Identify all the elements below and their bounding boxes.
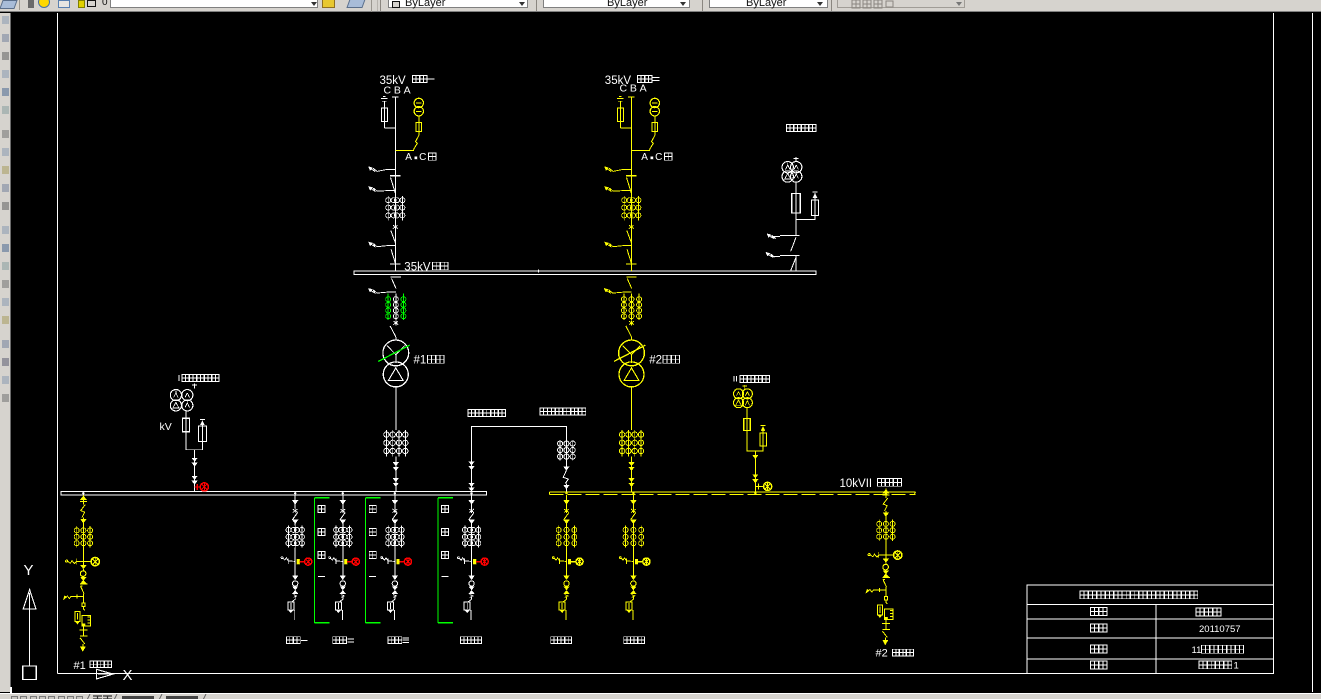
series reactor and capacitor [884, 609, 893, 620]
UCS icon X axis arrowhead [97, 669, 114, 679]
title row name label [1091, 608, 1099, 616]
wire feeder drop at x=342.8 [342, 495, 344, 500]
small marks [632, 595, 636, 596]
svg-text:11: 11 [1192, 645, 1202, 656]
tap range line (transformer 2) [614, 345, 645, 361]
wire drop (section I bus PT) [194, 450, 196, 492]
cabinet vertical label [369, 506, 376, 513]
closed indicator lamp [305, 558, 312, 565]
hourglass contact [631, 587, 636, 590]
disconnector below 35kV bus (transformer 2 string) [626, 276, 636, 278]
flow arrow [564, 520, 570, 524]
bus II connection dots [565, 492, 567, 494]
svg-text:A: A [405, 152, 412, 163]
earthing switch branch [619, 557, 621, 559]
earthing switch branch [329, 557, 331, 559]
feeder tail [393, 610, 395, 620]
current transformers [387, 525, 389, 547]
drawing frame left border [56, 13, 58, 674]
lineweight combo [709, 0, 828, 8]
wire to junction [342, 548, 344, 576]
disconnector blade [469, 513, 474, 520]
charged indicator link [568, 559, 571, 564]
disconnector blade [292, 513, 297, 520]
current transformers [558, 525, 560, 547]
svg-text:20110757: 20110757 [1199, 624, 1241, 635]
closed indicator lamp [83, 561, 90, 563]
closed indicator lamp [481, 558, 488, 565]
flow arrow [469, 500, 475, 504]
drawout breaker [294, 597, 296, 600]
surge arrester F1 (incomer 1 left branch) [381, 98, 388, 100]
wire PT branch jog (incoming line 2) [631, 132, 655, 151]
surge arrester F2 (incomer 2 left branch) [617, 98, 624, 100]
fuse (section I bus PT) [185, 411, 187, 418]
closed grounding indicator (section I) [196, 484, 198, 490]
fuse link circle [293, 581, 298, 586]
disconnector blade [81, 505, 85, 518]
charged indicator link [344, 559, 347, 564]
wire incoming line 1 main drop [394, 97, 396, 271]
lower bars [82, 626, 84, 630]
disconnector QS7b (35kV bus equipment) [766, 252, 770, 256]
section II bus equipment label [733, 376, 735, 381]
linetype combo [543, 0, 690, 8]
feeder tail [470, 610, 472, 620]
wire link (section I bus PT) [186, 432, 202, 450]
flow arrow [340, 500, 346, 504]
charged indicator link [397, 559, 400, 564]
title row number label [1091, 661, 1099, 669]
disconnector QS (transformer 2 string) [626, 326, 632, 337]
voltage transformer PT1 (incomer 1) [414, 98, 423, 107]
breaker truck mark [564, 509, 569, 512]
current transformers 35kV side (transformer 2 string) [623, 294, 625, 320]
earthing switch low [65, 596, 84, 599]
link square [885, 587, 887, 596]
flow arrow [469, 520, 475, 524]
wire feeder drop at x=394.9 [394, 495, 396, 500]
flow arrow [340, 520, 346, 524]
flow arrow [292, 500, 298, 504]
fuse (section II bus PT) [746, 408, 748, 419]
disconnector blade [564, 513, 569, 520]
contact bar [882, 576, 890, 578]
svg-text:A: A [641, 152, 648, 163]
command line cursor [10, 687, 12, 693]
svg-text:10kVII: 10kVII [840, 478, 873, 490]
UCS icon origin box [23, 666, 37, 679]
disconnector blade [631, 513, 636, 520]
voltage transformer PT2 (incomer 2) [650, 98, 659, 107]
flow arrow [631, 500, 637, 504]
section I bus equipment label [178, 375, 180, 381]
flow arrow [392, 500, 398, 504]
earthing switch branch [458, 557, 460, 559]
breaker truck mark [393, 509, 398, 512]
UCS icon Y axis line [29, 609, 31, 666]
svg-text:C: C [655, 152, 662, 163]
earthing switch ES1a [369, 167, 373, 171]
power transformer T2 [619, 340, 645, 366]
drawing frame bottom border [57, 673, 1273, 675]
series reactor and capacitor [82, 615, 91, 626]
svg-text:#2: #2 [649, 354, 662, 366]
flow arrow [392, 576, 397, 580]
flow arrow [392, 520, 398, 524]
breaker truck mark [631, 509, 636, 512]
hourglass contact [81, 577, 86, 580]
flow arrow [469, 576, 474, 580]
cabinet bracket green at x=438.0 [437, 498, 439, 623]
bus I connection dots [82, 492, 84, 494]
disconnector QS7a (35kV bus equipment) [767, 234, 771, 238]
color combo [388, 0, 528, 8]
tap range line (transformer 1) [378, 345, 409, 361]
current transformers TA2 (incoming line 2) [623, 196, 625, 221]
breaker truck mark [293, 509, 298, 512]
current transformers 10kV side (transformer 1 string) [385, 430, 387, 457]
35kV main bus [354, 271, 816, 275]
drawout breaker [394, 597, 396, 600]
hourglass contact [340, 587, 345, 590]
disconnector QS (transformer 1 string) [390, 326, 396, 337]
flow arrow [564, 576, 569, 580]
closed indicator lamp [576, 558, 583, 565]
earthing switch ES1c [369, 242, 373, 246]
current transformers 10kV side (transformer 2 string) [621, 430, 623, 457]
current transformers [288, 525, 290, 547]
svg-text:#2: #2 [876, 648, 888, 660]
earthing switch branch [281, 557, 283, 559]
10kV section I bus [61, 492, 487, 495]
small marks [293, 595, 297, 596]
title row name value [1196, 608, 1204, 616]
drawout breaker [342, 597, 344, 600]
drawout breaker [471, 597, 473, 600]
feeder tail [341, 610, 343, 620]
earthing switch (transformer 2 string) [604, 288, 608, 292]
wire feeder drop at x=295.2 [294, 495, 296, 500]
section I bus PT group [194, 384, 196, 389]
link square [82, 594, 84, 603]
bus tie breaker QF [565, 461, 567, 467]
wire transformer LV (transformer 1 string) [395, 387, 397, 430]
svg-text:#1: #1 [74, 660, 86, 672]
wire to junction [566, 548, 568, 576]
earthing switch ES2b [605, 186, 609, 190]
svg-text:CBA: CBA [384, 85, 414, 97]
fuse link circle [883, 564, 889, 570]
wire to junction [471, 548, 473, 576]
disconnector blade [392, 513, 397, 520]
wire to junction [885, 541, 887, 559]
flow arrows (transformer 1 string) [395, 457, 397, 492]
drawing frame right border [1273, 13, 1275, 674]
wire feeder drop at x=566.5 [566, 495, 568, 500]
wire to junction [394, 548, 396, 576]
title row class label [1091, 645, 1099, 653]
power transformer T1 [383, 340, 409, 366]
flow arrow [631, 576, 636, 580]
left vertical toolbar [0, 13, 11, 692]
feeder tail [294, 610, 296, 620]
svg-text:#1: #1 [414, 354, 427, 366]
wire incoming line 2 main drop [630, 97, 632, 271]
section II bus PT group [744, 385, 746, 390]
current transformers [76, 526, 78, 547]
wire arrester to main (incoming line 2) [620, 127, 631, 129]
fuse (35kV bus equipment) [795, 182, 797, 193]
surge arrester (section I bus PT) [200, 418, 205, 420]
current transformers [625, 525, 627, 547]
layer combo [110, 0, 318, 8]
wire link (section II bus PT) [747, 431, 763, 452]
drawout breaker [632, 597, 634, 600]
disconnector QS1a (incoming line 1) [390, 175, 400, 177]
breaker truck mark [340, 509, 345, 512]
flow arrow [631, 520, 637, 524]
closed indicator lamp [352, 558, 359, 565]
small marks [470, 595, 474, 596]
cabinet vertical label [318, 506, 325, 513]
earthing switch ES2c [605, 242, 609, 246]
drawout unit [83, 606, 85, 610]
layers toolbar icon group [0, 0, 18, 9]
disconnector blade [883, 498, 887, 511]
cabinet bracket green at x=314.4 [313, 498, 315, 623]
test point (transformer 2 string) [629, 321, 634, 324]
bus tie isolation cabinet label [468, 409, 475, 416]
earthing switch ES2a [605, 167, 609, 171]
wire drop (section II bus PT) [754, 451, 756, 492]
fuse link circle [392, 581, 397, 586]
bus tie left leg arrows [469, 462, 474, 465]
wire to junction [294, 548, 296, 576]
feeder label [551, 637, 558, 644]
current transformers [464, 525, 466, 547]
earthing switch (transformer 1 string) [368, 288, 372, 292]
feeder label [388, 637, 395, 644]
flow arrow [564, 500, 570, 504]
cabinet vertical label [442, 506, 449, 513]
tail arrow [883, 640, 888, 644]
title row number value [1199, 661, 1207, 669]
disconnector QS1b (incoming line 1) [391, 231, 396, 243]
hourglass contact [392, 587, 397, 590]
earthing switch branch [66, 560, 68, 562]
window splitter line right [1311, 13, 1313, 692]
bus tap arrow [883, 489, 889, 493]
flow arrow [292, 520, 298, 524]
cabinet bracket green at x=365.6 [365, 498, 367, 623]
current transformers TA1 (incoming line 1) [387, 196, 389, 221]
surge arrester (section II bus PT) [761, 424, 766, 426]
fuse link circle [564, 581, 569, 586]
wire feeder drop at x=471.6 [471, 495, 473, 500]
bus tap arrow [80, 496, 86, 500]
drawout unit [886, 600, 888, 604]
10kV section II bus [550, 491, 916, 493]
current transformers [878, 520, 880, 541]
fuse FU2 (incomer 2 PT) [654, 116, 656, 122]
bottom tab strip [0, 693, 1321, 699]
flow arrow [293, 576, 298, 580]
hourglass contact [469, 587, 474, 590]
feeder label [624, 637, 631, 644]
wire to junction [632, 548, 634, 576]
bus tie bridge wire [472, 426, 567, 491]
plot style combo (disabled) [837, 0, 965, 8]
fuse link circle [469, 581, 474, 586]
earthing switch branch [868, 554, 870, 556]
feeder tail [565, 610, 567, 620]
small marks [565, 595, 569, 596]
top toolbar [0, 0, 1321, 12]
title block table [1027, 585, 1274, 674]
svg-text:kV: kV [160, 421, 172, 433]
test point (transformer 1 string) [393, 321, 398, 324]
closed indicator lamp [404, 558, 411, 565]
svg-text:X: X [123, 667, 133, 684]
current transformers 35kV side (transformer 1 string) [387, 294, 389, 320]
flow arrow [81, 565, 86, 568]
hourglass contact [293, 587, 298, 590]
svg-text:Y: Y [24, 562, 34, 579]
svg-text:35kV: 35kV [404, 262, 431, 274]
closed indicator lamp [886, 554, 893, 556]
title block header text [1080, 591, 1088, 599]
disconnector QS2b (incoming line 2) [627, 231, 632, 243]
fuse link circle [631, 581, 636, 586]
disconnector below 35kV bus (transformer 1 string) [391, 276, 401, 278]
tail blade [80, 638, 85, 644]
wire arrester to main (incoming line 1) [384, 127, 395, 129]
current transformers [335, 525, 337, 547]
hourglass contact [564, 587, 569, 590]
closed indicator lamp [643, 558, 650, 565]
test point mark (incoming line 1) [393, 225, 398, 228]
breaker truck mark [469, 509, 474, 512]
wire feeder drop at x=633.4 [632, 495, 634, 500]
disconnector QS2c (incoming line 2) [627, 249, 631, 263]
bus tie breaker cabinet label [540, 408, 547, 415]
wire arrester link (35kV bus equipment) [796, 216, 815, 220]
earthing switch low [867, 590, 886, 593]
earthing switch branch [552, 557, 554, 559]
bus tie current transformers [559, 440, 561, 460]
earthing switch ES1b [369, 186, 373, 190]
disconnector blade 2 [81, 586, 85, 593]
disconnector blade [340, 513, 345, 520]
tail blade [883, 631, 888, 637]
flow arrow [883, 513, 888, 517]
fuse link circle [80, 571, 86, 577]
closed grounding indicator (section II) [757, 483, 759, 489]
svg-text:CBA: CBA [620, 83, 650, 95]
hourglass contact [883, 571, 888, 574]
earthing switch branch [381, 557, 383, 559]
bus PT group (35kV bus equipment) [795, 157, 797, 162]
35kV bus equipment bay label [787, 125, 794, 132]
flow arrow [81, 519, 86, 523]
feeder label [287, 637, 294, 644]
fuse link circle [340, 581, 345, 586]
wire drop (35kV bus equipment) [795, 213, 797, 236]
disconnector QS1c (incoming line 1) [391, 249, 395, 263]
fuse FU1 (incomer 1 PT) [418, 116, 420, 122]
svg-text:1: 1 [1234, 661, 1239, 672]
disconnector blade 2 [883, 580, 887, 587]
small marks [341, 595, 345, 596]
flow arrow [340, 576, 345, 580]
feeder tail [632, 610, 634, 620]
feeder label [461, 637, 468, 644]
lower bars [885, 620, 887, 624]
charged indicator link [297, 559, 300, 564]
wire PT branch jog (incoming line 1) [395, 132, 419, 151]
UCS icon Y arrowhead [23, 590, 36, 610]
feeder label [333, 637, 340, 644]
svg-text:C: C [419, 152, 426, 163]
flow arrows (transformer 2 string) [631, 457, 633, 492]
test point mark (incoming line 2) [629, 225, 634, 228]
surge arrester (35kV bus equipment) [812, 191, 817, 193]
flow arrow [883, 559, 888, 562]
charged indicator link [473, 559, 476, 564]
wire to junction [82, 547, 84, 565]
wire transformer LV (transformer 2 string) [631, 387, 633, 430]
small marks [393, 595, 397, 596]
title row id label [1091, 624, 1099, 632]
contact bar [80, 583, 88, 585]
charged indicator link [635, 559, 638, 564]
35kV bus joint tick [538, 269, 540, 272]
drawout breaker [566, 597, 568, 600]
disconnector QS2a (incoming line 2) [626, 175, 636, 177]
tail arrow [80, 647, 85, 651]
